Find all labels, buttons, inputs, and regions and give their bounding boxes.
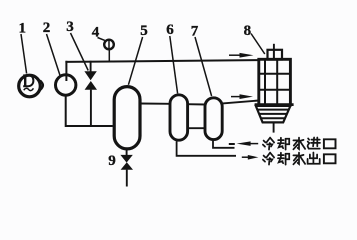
- svg-text:5: 5: [140, 23, 148, 39]
- wire valve3 top stem: [90, 61, 92, 72]
- arrow top into column: [229, 53, 254, 58]
- leader line 2: [47, 34, 61, 76]
- svg-text:4: 4: [92, 25, 100, 41]
- wire valve9 bottom stem: [126, 170, 128, 187]
- leader line 3: [71, 33, 89, 71]
- valve V3: [84, 71, 97, 90]
- gauge G4: [104, 40, 114, 61]
- wire pipe vessel7 to column8: [223, 101, 259, 104]
- outlet arrow pointing right: [242, 155, 259, 160]
- wire pipe vessel6 to vessel7 lower: [187, 127, 205, 129]
- column C8 cap: [268, 44, 283, 60]
- vessel T6: [170, 95, 188, 140]
- leader line 5: [128, 37, 142, 85]
- valve V9: [120, 155, 133, 170]
- wire vessel7 drain to inlet row: [213, 141, 235, 148]
- wire vessel5 bottom stem: [126, 150, 128, 156]
- wire pipe vessel5 to vessel6: [141, 103, 171, 105]
- leader line 7: [195, 37, 212, 96]
- text cooling water outlet: [263, 153, 336, 165]
- leader line 6: [170, 36, 178, 93]
- inlet arrow pointing left: [229, 141, 258, 146]
- svg-text:1: 1: [19, 21, 27, 37]
- wire top manifold: [65, 60, 258, 62]
- wire pump bottom to vessel 5: [66, 97, 113, 127]
- leader line 8: [251, 34, 265, 55]
- motor M1: [19, 75, 41, 97]
- wire pipe vessel6 to vessel7 upper: [187, 103, 205, 105]
- arrow lower into column: [231, 94, 253, 99]
- pump P2: [55, 75, 75, 95]
- text cooling water inlet: [263, 138, 336, 150]
- svg-text:2: 2: [43, 20, 51, 36]
- leader line 1: [21, 34, 27, 74]
- svg-text:9: 9: [108, 153, 116, 169]
- vessel T5: [114, 87, 140, 149]
- svg-text:7: 7: [191, 24, 199, 40]
- svg-text:6: 6: [166, 22, 174, 38]
- coupling between motor and pump: [40, 80, 43, 90]
- wire vessel6 drain to outlet row: [177, 141, 236, 156]
- svg-text:8: 8: [244, 23, 252, 39]
- svg-text:3: 3: [66, 19, 74, 35]
- leader line 4: [98, 38, 105, 41]
- wire valve3 bottom stem: [90, 90, 92, 127]
- column C8 body: [259, 59, 291, 105]
- vessel T7: [205, 98, 222, 140]
- column C8 bottom flange and base: [255, 105, 294, 133]
- wire pump top stem: [65, 61, 67, 81]
